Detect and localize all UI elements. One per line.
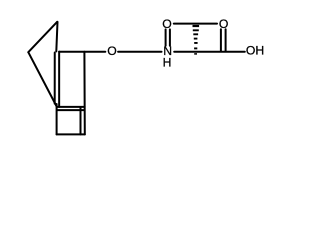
hashed wedge tip below backbone (194, 53, 197, 55)
svg-text:OH: OH (246, 44, 264, 58)
wire triangle right edge (56, 22, 57, 52)
wire square left edge (56, 104, 58, 134)
wire waist horizontal 2 (57, 109, 84, 111)
wire C=O double bond right (225, 29, 227, 51)
wire right edge vertical (83, 52, 85, 135)
chemical structure schematic (0, 0, 292, 155)
wire square inner double (80, 107, 82, 134)
wire C=O double bond left (220, 29, 222, 51)
wire lower diagonal (28, 52, 56, 106)
hashed wedge bond (193, 26, 200, 48)
wire rect left edge (58, 52, 60, 107)
wire N=O double bond left (165, 29, 167, 45)
svg-text:O: O (162, 17, 171, 31)
svg-text:H: H (163, 56, 172, 70)
wire upper diagonal (28, 22, 57, 52)
wire N to OH backbone (174, 51, 245, 53)
wire backbone to ether O (59, 51, 105, 53)
svg-text:O: O (107, 44, 116, 58)
wire ether O to N (118, 51, 161, 53)
wire inner double line (54, 53, 56, 104)
wire top O-C-O line (174, 23, 217, 25)
wire square bottom (57, 133, 85, 135)
wire waist horizontal 1 (58, 106, 85, 108)
wire N=O double bond right (169, 29, 171, 45)
svg-text:O: O (219, 17, 228, 31)
